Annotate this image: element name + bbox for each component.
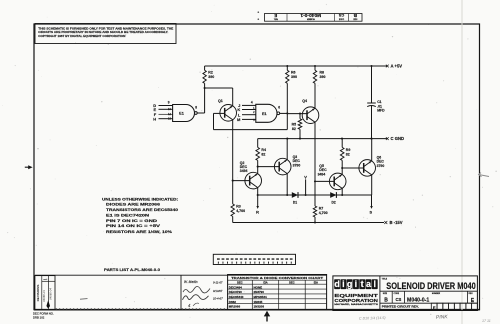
parts-list cell divider — [180, 275, 182, 310]
junction R8 top — [314, 65, 316, 67]
svg-text:DIODES ARE MR2066: DIODES ARE MR2066 — [106, 203, 160, 207]
svg-text:EIA: EIA — [314, 281, 318, 285]
svg-text:MAYNARD, MASSACHUSETTS: MAYNARD, MASSACHUSETTS — [334, 303, 378, 306]
chart pointer arrow — [264, 311, 270, 322]
svg-text:DEC65340: DEC65340 — [229, 295, 244, 299]
svg-text:82: 82 — [346, 152, 350, 156]
svg-text:R5: R5 — [292, 122, 297, 126]
svg-text:MPS6534: MPS6534 — [254, 295, 268, 299]
capacitor C1 — [367, 66, 376, 139]
svg-text:4,700: 4,700 — [319, 211, 328, 215]
transistor Q6 — [359, 160, 376, 177]
label E1 gate1 — [179, 112, 184, 116]
wire Q6 base — [342, 167, 364, 169]
notice text line 1 — [38, 26, 173, 30]
label input H — [153, 116, 156, 121]
svg-text:MFD: MFD — [377, 109, 385, 113]
svg-text:t: t — [361, 279, 364, 289]
perforation ruler ticks — [56, 308, 225, 310]
junction node R2 bottom — [204, 87, 206, 89]
nand gate E1 (pins 9,10,12,13 -> 8) — [173, 105, 198, 122]
svg-text:17 11: 17 11 — [482, 319, 491, 323]
code cell — [394, 293, 402, 302]
svg-text:390: 390 — [208, 75, 214, 79]
notice text line 2 — [38, 30, 168, 34]
wire Q2 emitter to output node — [257, 188, 259, 195]
gate2 pin numbers 1 2 5 — [253, 106, 255, 122]
svg-text:E: E — [274, 13, 277, 18]
svg-text:SIZE: SIZE — [383, 293, 388, 295]
label E1 gate2 — [262, 112, 267, 116]
svg-text:EIA: EIA — [263, 281, 267, 285]
terminal R stub with arrow — [256, 195, 259, 209]
junction Q2 emitter node — [257, 194, 259, 196]
input wire J — [242, 104, 256, 106]
gate1 output pin 8 — [195, 106, 197, 110]
nand gate E1 (pins 1,2,4,5 -> 6) — [256, 104, 280, 122]
svg-text:NUMBER: NUMBER — [432, 293, 441, 295]
svg-text:Q4: Q4 — [302, 99, 307, 103]
svg-text:1N645: 1N645 — [254, 300, 263, 304]
svg-text:PINK: PINK — [436, 314, 449, 321]
equipment corporation text — [334, 293, 378, 306]
wire gate2 node to Q4 base — [287, 113, 307, 115]
resistor R5 — [298, 114, 302, 139]
resistor R3 — [231, 181, 234, 223]
junction R6 top — [286, 65, 288, 67]
svg-text:3494: 3494 — [240, 169, 248, 173]
label A +5V — [391, 64, 403, 69]
junction R5 bottom / gnd bus — [299, 138, 301, 140]
input wire L — [242, 114, 256, 116]
svg-text:D1: D1 — [293, 201, 297, 205]
svg-text:l: l — [373, 279, 376, 289]
svg-text:04080-01: 04080-01 — [42, 290, 46, 302]
svg-text:82: 82 — [292, 127, 296, 131]
svg-text:SOLENOID DRIVER M040: SOLENOID DRIVER M040 — [386, 281, 476, 291]
svg-text:390: 390 — [320, 75, 326, 79]
inverted drawing-number strip (top edge) — [265, 12, 363, 21]
svg-text:COPYRIGHT 1967 BY DIGITAL EQUI: COPYRIGHT 1967 BY DIGITAL EQUIPMENT CORP… — [38, 34, 125, 38]
svg-text:3494: 3494 — [318, 172, 326, 176]
fold crease line — [461, 0, 463, 324]
drawing frame border — [34, 24, 480, 310]
junction V stub — [305, 194, 307, 196]
transistor Q3 — [274, 158, 291, 175]
gate1 pin numbers 10 12 13 — [168, 107, 171, 120]
transistor & diode conversion chart — [228, 275, 327, 310]
svg-text:PIN 14 ON IC = +5V: PIN 14 ON IC = +5V — [106, 224, 161, 228]
gate2 output pin 6 — [278, 106, 280, 110]
module edge connector — [213, 254, 295, 264]
svg-text:TRANSISTORS ARE DEC65340: TRANSISTORS ARE DEC65340 — [106, 208, 178, 212]
svg-text:i: i — [342, 279, 345, 289]
stray pencil mark — [80, 298, 88, 301]
wire Q3 collector up — [286, 139, 288, 160]
general notes block — [102, 197, 178, 233]
wire Q1 emitter down to Q2 base — [232, 120, 234, 181]
label Q1 — [218, 99, 223, 103]
terminal C GND tick — [386, 137, 389, 140]
svg-text:R4: R4 — [261, 148, 266, 152]
terminal S stub with arrow — [370, 195, 373, 209]
svg-text:2: 2 — [253, 110, 255, 114]
svg-text:82: 82 — [261, 152, 265, 156]
svg-text:R2: R2 — [208, 71, 213, 75]
terminal B -15V tick — [384, 221, 387, 224]
wire Q6 collector up — [371, 139, 373, 161]
staple marks — [258, 11, 260, 20]
rev cell — [469, 293, 475, 304]
svg-text:D2: D2 — [331, 201, 335, 205]
title label — [382, 278, 388, 280]
junction Q6 base tap — [341, 167, 343, 169]
svg-text:C GND: C GND — [391, 136, 405, 141]
label Q6 DEC 3790 — [377, 156, 385, 168]
pencil margin arrow — [479, 173, 490, 177]
svg-text:PIN 7 ON IC = GND: PIN 7 ON IC = GND — [106, 219, 157, 223]
net B -15V rail wire — [233, 222, 384, 224]
label R8 390 — [320, 71, 326, 79]
svg-text:6: 6 — [278, 106, 280, 110]
pencil note PINK — [436, 314, 449, 321]
svg-text:R6: R6 — [291, 71, 296, 75]
svg-text:1N3208: 1N3208 — [254, 305, 265, 309]
svg-text:3790: 3790 — [293, 163, 301, 167]
resistor R4 — [256, 139, 260, 174]
svg-text:390: 390 — [291, 75, 297, 79]
junction Q3 base tap — [257, 166, 259, 168]
label R6 390 — [291, 71, 297, 79]
svg-text:M: M — [237, 117, 241, 122]
wire Q3 base — [258, 166, 280, 168]
svg-text:CORPORATION: CORPORATION — [334, 298, 378, 303]
terminal V stub — [305, 179, 307, 195]
svg-text:R8: R8 — [320, 71, 325, 75]
label B -15V — [390, 220, 403, 225]
gate1 pin 9 — [168, 101, 170, 105]
wire gate-output crosstie — [214, 113, 288, 129]
label C1 .01 MFD — [377, 100, 385, 112]
label R7 4,700 — [319, 207, 328, 216]
junction Q3 collector / gnd bus — [286, 138, 288, 140]
label input D — [153, 103, 156, 108]
label input F — [154, 112, 157, 117]
svg-text:MR2066: MR2066 — [229, 305, 241, 309]
junction R5 top — [299, 113, 301, 115]
svg-text:5: 5 — [253, 118, 255, 122]
svg-text:R9: R9 — [346, 148, 351, 152]
label R5 82 — [292, 122, 297, 130]
svg-text:R: R — [256, 209, 259, 214]
wire output line — [258, 194, 372, 196]
label R3 4,700 — [236, 205, 245, 214]
wire Q6 emitter down — [371, 175, 373, 195]
svg-text:DEC3790: DEC3790 — [229, 290, 242, 294]
wire R2 node to Q1 collector — [205, 88, 233, 106]
net A +5V rail wire — [205, 65, 387, 67]
pencil note corner — [482, 319, 491, 323]
left margin arrow — [25, 165, 33, 169]
wire Q3 emitter down — [286, 174, 288, 195]
resistor R6 — [286, 66, 289, 113]
drawing title — [386, 281, 476, 291]
input wire M — [242, 118, 256, 120]
svg-text:A +5V: A +5V — [391, 64, 403, 69]
signatures handwriting — [183, 280, 224, 308]
label R9 82 — [346, 148, 351, 156]
label input K — [237, 107, 240, 112]
junction Q5 emitter / output line — [341, 194, 343, 196]
svg-text:D662: D662 — [229, 300, 237, 304]
svg-text:M040-0-1: M040-0-1 — [407, 298, 429, 304]
wire Q1 base corner — [214, 113, 225, 129]
printed circuit rev label — [382, 305, 419, 309]
svg-text:8: 8 — [195, 106, 197, 110]
number cell — [407, 293, 441, 303]
parts list note — [104, 267, 160, 272]
svg-text:DEC3494: DEC3494 — [229, 285, 242, 289]
label Q3 DEC 3790 — [293, 155, 301, 167]
label C GND — [391, 136, 405, 141]
label R4 82 — [261, 148, 266, 156]
resistor R8 — [313, 66, 316, 108]
label input J — [238, 103, 240, 108]
digital logo — [334, 279, 378, 289]
svg-text:i: i — [355, 279, 358, 289]
label input L — [238, 112, 241, 117]
input wire F — [159, 113, 173, 115]
printed circuit rev boxes — [431, 303, 477, 310]
svg-text:R3: R3 — [236, 205, 241, 209]
title block frame — [333, 276, 478, 311]
svg-text:PARTS LIST A-PL-M040-0-0: PARTS LIST A-PL-M040-0-0 — [104, 267, 160, 272]
proprietary notice box — [35, 24, 176, 44]
label terminal R — [256, 209, 259, 214]
svg-text:R7: R7 — [319, 207, 324, 211]
wire Q5 base — [315, 180, 334, 182]
svg-text:NONE: NONE — [254, 285, 263, 289]
svg-text:9-11-67: 9-11-67 — [213, 280, 223, 284]
label R2 390 — [208, 71, 214, 79]
transistor Q1 — [220, 105, 237, 122]
svg-text:4,700: 4,700 — [236, 209, 245, 213]
pencil note — [359, 316, 386, 321]
junction Q3 emitter / output line — [286, 194, 288, 196]
svg-text:9: 9 — [168, 101, 170, 105]
svg-text:4: 4 — [188, 303, 191, 308]
svg-text:9/13/67: 9/13/67 — [213, 289, 223, 293]
label terminal S — [369, 209, 372, 214]
label Q5 DEC 3494 — [318, 164, 327, 176]
svg-text:DEC: DEC — [237, 281, 243, 285]
junction R9 top / gnd bus — [341, 138, 343, 140]
label input E — [154, 107, 157, 112]
svg-text:B -15V: B -15V — [390, 220, 403, 225]
net C GND bus wire — [258, 138, 387, 140]
notice text line 3 — [38, 34, 125, 38]
svg-text:E: E — [433, 305, 436, 310]
svg-text:PRINTED CIRCUIT REV.: PRINTED CIRCUIT REV. — [382, 305, 419, 309]
svg-text:3790: 3790 — [377, 164, 385, 168]
input wire E — [159, 108, 173, 110]
svg-text:B: B — [353, 13, 357, 18]
label Q4 — [302, 99, 307, 103]
resistor R7 — [313, 195, 316, 223]
wire gate2 output — [280, 112, 288, 114]
svg-text:M040-0-1: M040-0-1 — [300, 12, 321, 18]
svg-text:10-4-67: 10-4-67 — [213, 297, 223, 301]
resistor R2 — [203, 66, 206, 88]
input wire K — [242, 109, 256, 111]
svg-text:2N3790: 2N3790 — [254, 290, 265, 294]
svg-text:CODE: CODE — [394, 293, 400, 295]
junction gate2 output node — [286, 112, 288, 114]
svg-text:4: 4 — [251, 101, 253, 105]
svg-text:E1 IS DEC7420N: E1 IS DEC7420N — [106, 213, 149, 217]
label Q2 DEC 3494 — [240, 161, 248, 173]
svg-text:REVISIONS: REVISIONS — [36, 285, 40, 302]
junction Q5 base node — [314, 180, 316, 182]
svg-text:NUMBER: NUMBER — [306, 18, 314, 20]
svg-text:E1: E1 — [262, 112, 267, 116]
junction C1 top — [370, 65, 372, 67]
svg-text:V: V — [304, 174, 307, 179]
resistor R9 — [340, 139, 344, 175]
junction C1-Q6 / gnd bus — [370, 138, 372, 140]
label input M — [237, 117, 241, 122]
bottom strip top line — [35, 274, 327, 276]
transistor Q2 — [245, 172, 262, 189]
svg-text:CS: CS — [338, 13, 344, 18]
terminal A +5V tick — [386, 65, 389, 68]
svg-text:S: S — [369, 209, 372, 214]
input wire H — [159, 118, 173, 120]
wire Q5 emitter down — [341, 188, 343, 195]
wire Q4 emitter down — [314, 122, 316, 206]
svg-text:RESISTORS ARE 1/4W, 10%: RESISTORS ARE 1/4W, 10% — [106, 230, 173, 234]
svg-text:E1: E1 — [179, 112, 184, 116]
svg-text:W. Martin: W. Martin — [184, 280, 198, 284]
dec form number text — [33, 312, 54, 320]
transistor Q5 — [329, 173, 346, 190]
svg-text:d: d — [334, 279, 340, 289]
revision table — [35, 276, 55, 310]
wire Q2 base — [232, 180, 250, 182]
svg-text:UNLESS OTHERWISE INDICATED:: UNLESS OTHERWISE INDICATED: — [102, 197, 178, 201]
diode D1 — [292, 192, 298, 198]
label D2 — [331, 201, 335, 205]
wire R2 node to gate1 output — [197, 88, 204, 113]
transistor Q4 — [302, 107, 319, 124]
svg-text:REV.: REV. — [469, 293, 474, 295]
svg-text:B: B — [384, 297, 388, 303]
label terminal V — [304, 174, 307, 179]
svg-text:TRANSISTOR & DIODE CONVERSION: TRANSISTOR & DIODE CONVERSION CHART — [231, 276, 323, 280]
svg-text:DRB 102: DRB 102 — [33, 316, 45, 320]
svg-text:H: H — [153, 116, 156, 121]
svg-text:Q1: Q1 — [218, 99, 223, 103]
svg-text:DEC: DEC — [289, 281, 295, 285]
svg-text:04080-04: 04080-04 — [49, 288, 53, 300]
gate2 pin 4 — [251, 101, 253, 105]
size cell — [383, 293, 388, 303]
svg-text:12: 12 — [168, 112, 171, 116]
label D1 — [293, 201, 297, 205]
input wire D — [159, 105, 173, 107]
junction R7 bottom — [314, 221, 316, 223]
svg-text:g: g — [347, 279, 353, 289]
svg-text:C D10 1/4 (14.5): C D10 1/4 (14.5) — [359, 316, 386, 321]
diode D2 — [330, 192, 336, 198]
svg-text:CS: CS — [395, 297, 401, 302]
